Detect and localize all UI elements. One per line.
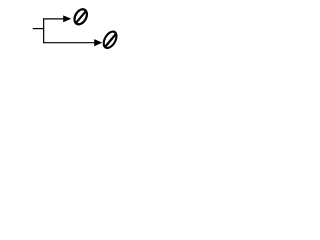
arrowhead bottom	[94, 39, 102, 46]
wire top branch	[43, 18, 63, 20]
arrowhead top	[63, 15, 71, 22]
node symbol top (slashed-zero glyph)	[70, 6, 91, 28]
wire input stub	[33, 28, 44, 30]
node symbol bottom (slashed-zero glyph)	[100, 28, 121, 52]
background	[0, 0, 150, 59]
wire vertical bus	[43, 18, 45, 43]
wire bottom branch	[43, 42, 94, 44]
